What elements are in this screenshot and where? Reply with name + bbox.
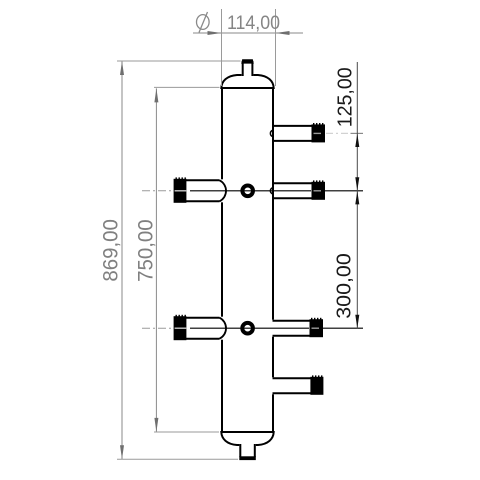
row2 center boss circle xyxy=(242,186,253,197)
dim 750 extension bottom xyxy=(154,431,219,433)
dim diameter arrow right xyxy=(276,31,290,35)
top vent nub xyxy=(241,59,254,77)
port L3 junction arc xyxy=(220,318,227,339)
bottom dished head xyxy=(221,432,274,445)
port L3 white body xyxy=(186,317,226,340)
dim 869 arrow bottom xyxy=(120,445,124,459)
svg-text:869,00: 869,00 xyxy=(99,219,122,282)
row2 centerline dash-dot left xyxy=(142,190,174,192)
svg-text:114,00: 114,00 xyxy=(227,12,280,34)
dim 300 arrow bottom xyxy=(355,315,359,328)
bottom drain nub xyxy=(239,444,256,461)
port R3 white body xyxy=(271,320,310,337)
port R4 white body xyxy=(271,377,311,394)
port R4 tube xyxy=(273,378,312,393)
port R3 centerline in tube xyxy=(271,327,309,329)
port L3 centerline in tube xyxy=(190,327,227,329)
port R4 thread cap xyxy=(310,375,323,394)
port R1 tube xyxy=(273,126,312,141)
port R1 thread cap xyxy=(312,123,326,142)
dim 869 extension bottom xyxy=(117,458,238,460)
top dished head xyxy=(221,75,274,88)
port R1 centerline dashes xyxy=(326,132,351,134)
port R1 extension to dimension xyxy=(351,132,364,134)
dim 869 extension top xyxy=(117,60,241,62)
dim 300 arrow top xyxy=(355,191,359,204)
vessel body left wall xyxy=(221,88,223,433)
dim diameter line xyxy=(193,32,303,34)
port R2 thread cap xyxy=(312,180,326,199)
vessel body right wall xyxy=(272,88,274,433)
dim 750 arrow bottom xyxy=(154,418,158,432)
svg-text:300,00: 300,00 xyxy=(333,253,355,319)
svg-text:750,00: 750,00 xyxy=(134,219,157,282)
port L3 tube xyxy=(186,318,220,339)
dim 750 line xyxy=(155,88,157,432)
port R3 tube xyxy=(273,321,311,336)
port R2 white body xyxy=(275,182,312,199)
svg-text:125,00: 125,00 xyxy=(335,67,357,127)
port R2 centerline in tube xyxy=(275,190,312,192)
port R1 white body xyxy=(275,125,312,142)
row2 centerline xyxy=(190,190,363,192)
port L2 centerline in tube xyxy=(190,190,227,192)
port L2 thread cap xyxy=(174,177,187,202)
dim diameter arrow left xyxy=(208,31,222,35)
port R2 junction bump xyxy=(270,187,273,194)
dim 869 line xyxy=(121,61,123,459)
dim 125 arrow bottom xyxy=(355,177,359,190)
dim right shared line xyxy=(356,62,358,328)
dim diameter extension right xyxy=(275,9,277,86)
port L2 tube xyxy=(186,180,220,201)
port L2 junction arc xyxy=(220,180,227,201)
dim diameter symbol xyxy=(197,12,210,33)
row3 center boss circle xyxy=(242,323,253,334)
port L2 white body xyxy=(186,179,226,202)
dim 750 extension top xyxy=(154,86,220,88)
dim 125 arrow top xyxy=(355,134,359,147)
row3 centerline dash-dot left xyxy=(142,327,174,329)
row3 centerline xyxy=(190,327,363,329)
dim diameter extension left xyxy=(221,9,223,86)
port R2 tube xyxy=(273,183,312,198)
port R1 junction bump xyxy=(270,130,273,137)
port R3 thread cap xyxy=(310,318,324,337)
dim 869 arrow top xyxy=(120,61,124,75)
port L3 thread cap xyxy=(174,315,187,340)
dim 750 arrow top xyxy=(154,88,158,102)
